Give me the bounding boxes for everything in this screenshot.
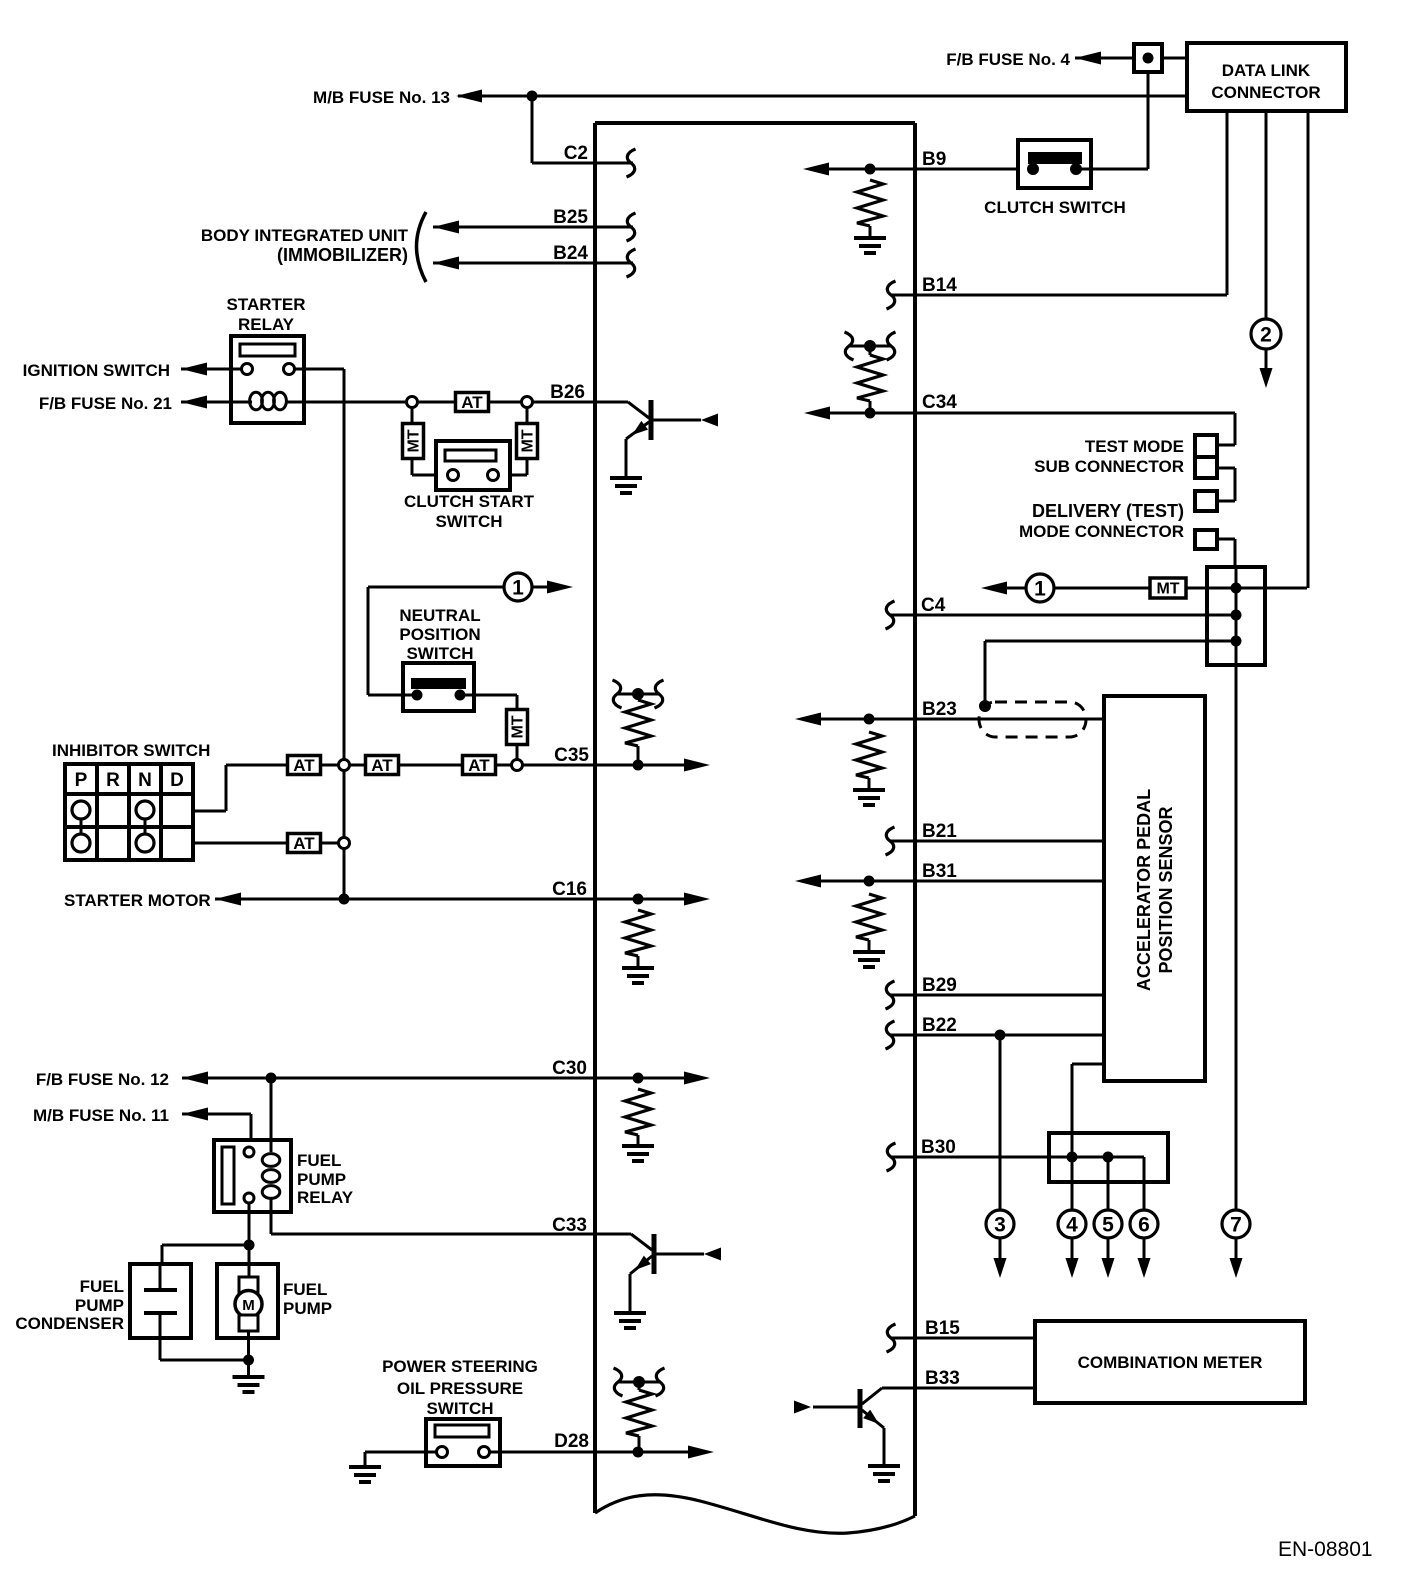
- svg-text:SWITCH: SWITCH: [435, 512, 502, 531]
- svg-text:2: 2: [1260, 324, 1272, 347]
- svg-text:B31: B31: [922, 861, 957, 882]
- svg-text:M: M: [242, 1297, 255, 1314]
- svg-text:PUMP: PUMP: [297, 1170, 346, 1189]
- svg-text:BODY INTEGRATED UNIT: BODY INTEGRATED UNIT: [201, 226, 409, 245]
- svg-text:EN-08801: EN-08801: [1278, 1538, 1373, 1561]
- svg-text:C34: C34: [922, 392, 957, 413]
- svg-text:SWITCH: SWITCH: [426, 1399, 493, 1418]
- svg-text:DELIVERY (TEST): DELIVERY (TEST): [1032, 501, 1184, 521]
- svg-text:MODE CONNECTOR: MODE CONNECTOR: [1019, 522, 1184, 541]
- svg-text:(IMMOBILIZER): (IMMOBILIZER): [277, 245, 408, 265]
- svg-text:PUMP: PUMP: [283, 1299, 332, 1318]
- svg-text:OIL PRESSURE: OIL PRESSURE: [397, 1379, 523, 1398]
- svg-text:F/B FUSE No. 4: F/B FUSE No. 4: [946, 50, 1070, 69]
- svg-text:POSITION: POSITION: [399, 625, 480, 644]
- svg-text:MT: MT: [520, 429, 537, 452]
- svg-text:F/B FUSE No. 12: F/B FUSE No. 12: [36, 1070, 169, 1089]
- svg-text:7: 7: [1230, 1214, 1242, 1237]
- svg-text:C35: C35: [554, 745, 589, 766]
- svg-text:FUEL: FUEL: [80, 1277, 124, 1296]
- svg-text:STARTER: STARTER: [226, 295, 305, 314]
- svg-text:M/B FUSE No. 13: M/B FUSE No. 13: [313, 88, 450, 107]
- svg-text:SWITCH: SWITCH: [406, 644, 473, 663]
- svg-text:AT: AT: [293, 834, 315, 853]
- svg-text:F/B FUSE No. 21: F/B FUSE No. 21: [39, 394, 172, 413]
- svg-text:CLUTCH SWITCH: CLUTCH SWITCH: [984, 198, 1126, 217]
- svg-text:B22: B22: [922, 1015, 957, 1036]
- svg-text:FUEL: FUEL: [297, 1151, 341, 1170]
- svg-text:B15: B15: [925, 1318, 960, 1339]
- svg-text:POWER STEERING: POWER STEERING: [382, 1357, 538, 1376]
- svg-text:D: D: [170, 770, 184, 791]
- svg-text:3: 3: [994, 1214, 1006, 1237]
- svg-text:C30: C30: [552, 1058, 587, 1079]
- svg-text:B33: B33: [925, 1368, 960, 1389]
- svg-text:RELAY: RELAY: [297, 1188, 354, 1207]
- svg-text:P: P: [75, 770, 88, 791]
- svg-text:CONNECTOR: CONNECTOR: [1211, 83, 1320, 102]
- svg-text:B29: B29: [922, 975, 957, 996]
- svg-text:INHIBITOR SWITCH: INHIBITOR SWITCH: [52, 741, 210, 760]
- svg-text:IGNITION SWITCH: IGNITION SWITCH: [23, 361, 170, 380]
- svg-text:M/B FUSE No. 11: M/B FUSE No. 11: [33, 1106, 169, 1125]
- svg-text:B30: B30: [921, 1137, 956, 1158]
- svg-text:FUEL: FUEL: [283, 1280, 327, 1299]
- svg-text:SUB CONNECTOR: SUB CONNECTOR: [1034, 457, 1184, 476]
- svg-text:NEUTRAL: NEUTRAL: [399, 606, 480, 625]
- svg-text:PUMP: PUMP: [75, 1296, 124, 1315]
- svg-text:MT: MT: [510, 715, 527, 738]
- svg-text:C2: C2: [564, 143, 588, 164]
- svg-text:B26: B26: [550, 382, 585, 403]
- svg-text:AT: AT: [371, 756, 393, 775]
- svg-text:STARTER MOTOR: STARTER MOTOR: [64, 891, 211, 910]
- svg-text:CONDENSER: CONDENSER: [15, 1314, 124, 1333]
- svg-text:R: R: [106, 770, 120, 791]
- svg-text:POSITION SENSOR: POSITION SENSOR: [1156, 806, 1176, 973]
- svg-text:D28: D28: [554, 1431, 589, 1452]
- svg-text:C16: C16: [552, 879, 587, 900]
- svg-text:B24: B24: [553, 243, 588, 264]
- svg-text:C33: C33: [552, 1215, 587, 1236]
- svg-text:CLUTCH START: CLUTCH START: [404, 492, 535, 511]
- svg-text:1: 1: [512, 577, 524, 600]
- svg-text:B25: B25: [553, 207, 588, 228]
- svg-text:ACCELERATOR PEDAL: ACCELERATOR PEDAL: [1134, 789, 1154, 991]
- svg-text:N: N: [138, 770, 152, 791]
- svg-text:MT: MT: [1156, 581, 1179, 598]
- svg-text:COMBINATION METER: COMBINATION METER: [1078, 1353, 1263, 1372]
- svg-text:5: 5: [1102, 1214, 1114, 1237]
- svg-text:B21: B21: [922, 821, 957, 842]
- svg-text:4: 4: [1066, 1214, 1078, 1237]
- svg-text:MT: MT: [406, 429, 423, 452]
- svg-text:1: 1: [1034, 578, 1046, 601]
- svg-text:AT: AT: [461, 393, 483, 412]
- svg-text:C4: C4: [921, 595, 946, 616]
- svg-text:B9: B9: [922, 149, 946, 170]
- svg-text:TEST MODE: TEST MODE: [1085, 437, 1184, 456]
- svg-text:AT: AT: [293, 756, 315, 775]
- svg-text:RELAY: RELAY: [238, 315, 295, 334]
- svg-text:B23: B23: [922, 699, 957, 720]
- svg-text:AT: AT: [468, 756, 490, 775]
- svg-text:DATA LINK: DATA LINK: [1222, 61, 1311, 80]
- svg-text:6: 6: [1138, 1214, 1150, 1237]
- svg-text:B14: B14: [922, 275, 957, 296]
